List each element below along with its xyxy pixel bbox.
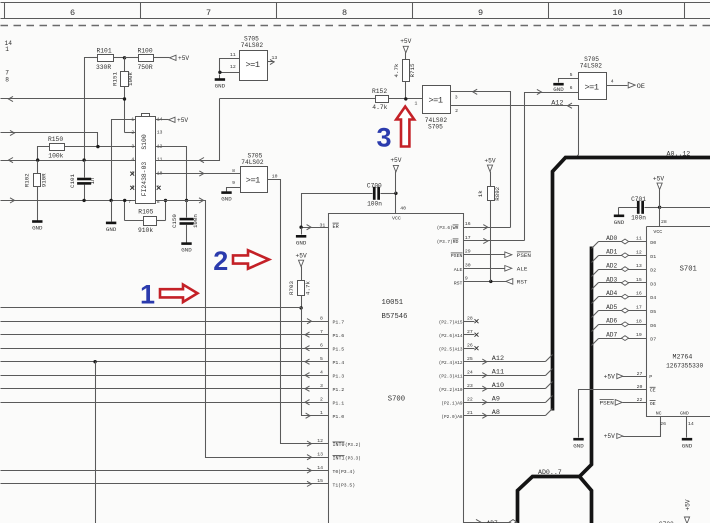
svg-text:16: 16 <box>465 221 471 227</box>
svg-text:D5: D5 <box>650 309 656 315</box>
svg-text:13: 13 <box>157 130 163 136</box>
svg-text:R715: R715 <box>409 63 416 77</box>
wire M2764 GND pin14 <box>687 417 694 438</box>
svg-text:+5V: +5V <box>390 157 401 164</box>
svg-text:3: 3 <box>320 383 323 389</box>
svg-text:7: 7 <box>5 70 9 77</box>
svg-text:R100: R100 <box>138 48 153 55</box>
wire RD pin17 row <box>464 235 525 244</box>
svg-text:4: 4 <box>320 370 323 376</box>
net label A12 at U3 <box>551 100 563 108</box>
svg-text:GND: GND <box>296 239 307 246</box>
wire P1.3 row <box>1 370 329 378</box>
off-page connector PSEN <box>505 252 532 259</box>
svg-text:FI2438-03: FI2438-03 <box>141 162 148 197</box>
wire A15 no-connect stub <box>464 316 479 324</box>
wire U2 output to 8051 INT0 <box>268 180 329 447</box>
svg-text:8: 8 <box>5 77 9 84</box>
svg-text:P1.2: P1.2 <box>333 387 345 393</box>
junction R703 / row307 <box>299 306 302 309</box>
svg-text:(P2.3)A11: (P2.3)A11 <box>439 374 463 379</box>
wire AD0 from bus to M2764 <box>592 236 647 249</box>
svg-text:PSEN: PSEN <box>600 400 615 407</box>
svg-text:S100: S100 <box>141 134 148 150</box>
svg-text:4.7k: 4.7k <box>304 281 311 295</box>
svg-text:2: 2 <box>131 130 134 136</box>
wire AD7 from bus to M2764 <box>592 332 647 345</box>
svg-text:AD2: AD2 <box>606 263 617 270</box>
svg-text:R150: R150 <box>48 136 63 143</box>
svg-text:CE: CE <box>650 387 656 393</box>
wire M2764 VPP rail to page edge <box>660 207 710 209</box>
svg-text:100k: 100k <box>48 152 63 159</box>
off-page connector OE <box>628 82 645 91</box>
resistor R150 <box>38 136 136 160</box>
wire M2764 CE pin20 to ground <box>579 384 647 437</box>
svg-text:C150: C150 <box>171 214 178 228</box>
NOR gate U1 74LS02 S705 <box>230 36 277 81</box>
svg-text:100k: 100k <box>127 72 134 86</box>
svg-text:R102: R102 <box>24 173 31 187</box>
wire M2764 NC pin26 to +5V <box>623 417 667 437</box>
svg-text:750R: 750R <box>138 64 153 71</box>
svg-text:100n: 100n <box>631 215 646 222</box>
svg-text:P1.1: P1.1 <box>333 400 345 406</box>
svg-text:P1.4: P1.4 <box>333 360 345 366</box>
svg-text:910R: 910R <box>40 173 47 187</box>
junction C700/+5V/pin40 <box>394 192 397 195</box>
junction U1 input tie <box>218 71 221 74</box>
svg-text:A10: A10 <box>492 382 504 390</box>
svg-text:25: 25 <box>467 356 473 362</box>
+5V supply at S100 pin14 <box>169 117 189 124</box>
svg-text:7: 7 <box>320 329 323 335</box>
svg-text:PSEN: PSEN <box>451 253 463 259</box>
wire P1.5 row <box>1 343 329 351</box>
svg-text:26: 26 <box>467 343 473 349</box>
svg-text:330R: 330R <box>96 64 111 71</box>
svg-text:+5V: +5V <box>604 373 615 380</box>
svg-text:M2764: M2764 <box>673 354 693 361</box>
svg-text:+5V: +5V <box>400 38 411 45</box>
svg-text:C701: C701 <box>631 196 646 203</box>
svg-text:A11: A11 <box>492 369 504 377</box>
svg-text:11: 11 <box>230 52 236 58</box>
wire AD2 from bus to M2764 <box>592 263 647 276</box>
svg-text:D4: D4 <box>650 295 656 301</box>
svg-text:C700: C700 <box>367 182 382 189</box>
svg-text:AD6: AD6 <box>606 318 617 325</box>
svg-text:R101: R101 <box>97 48 112 55</box>
wire address A10 to bus <box>464 382 553 392</box>
wire U3 pin3 to 8051 WR <box>451 89 511 227</box>
svg-text:AD5: AD5 <box>606 304 617 311</box>
svg-text:15: 15 <box>636 277 642 283</box>
svg-text:A9: A9 <box>492 396 500 404</box>
wire net row y307 from left edge <box>1 307 302 309</box>
resistor R715 <box>393 60 416 99</box>
+5V supply at R100 <box>170 55 190 62</box>
svg-text:17: 17 <box>465 235 471 241</box>
svg-text:19: 19 <box>636 332 642 338</box>
svg-text:9: 9 <box>465 276 468 282</box>
svg-text:30: 30 <box>465 262 471 268</box>
wire R703 to P1.0 pin <box>302 308 329 419</box>
IC S100 FI2438-03 <box>128 114 162 205</box>
sheet border column labels <box>1 3 710 26</box>
wire EA pin31 <box>302 223 329 230</box>
svg-text:28: 28 <box>467 316 473 322</box>
wire +5V to M2764 PGM pin27 <box>623 371 647 377</box>
ground at CE pin20 <box>573 438 584 449</box>
wire A14 no-connect stub <box>464 329 479 337</box>
svg-text:+5V: +5V <box>178 55 189 62</box>
no-connect S100 pin 5 <box>130 172 134 176</box>
svg-text:13: 13 <box>317 452 323 458</box>
svg-text:9: 9 <box>232 180 235 186</box>
+5V supply at pin27 <box>604 373 623 380</box>
wire address A8 to bus <box>464 409 553 419</box>
svg-text:18: 18 <box>636 318 642 324</box>
svg-text:8: 8 <box>157 199 160 205</box>
svg-text:WR: WR <box>453 225 459 231</box>
svg-text:A8: A8 <box>492 409 500 417</box>
svg-text:OE: OE <box>637 83 645 91</box>
svg-text:GND: GND <box>680 410 689 416</box>
svg-text:(P2.1)A9: (P2.1)A9 <box>441 401 462 406</box>
resistor R105 <box>125 201 166 235</box>
svg-text:(P3.7): (P3.7) <box>437 240 453 245</box>
svg-text:1: 1 <box>140 280 155 310</box>
svg-text:11: 11 <box>636 236 642 242</box>
svg-text:NC: NC <box>656 410 662 416</box>
off-page connector RST <box>506 279 528 286</box>
resistor R101 <box>89 48 125 71</box>
junction R101/R100/R151 <box>123 56 126 59</box>
svg-text:4: 4 <box>131 157 134 163</box>
wire S100 pin1 to pin2 net <box>112 120 136 201</box>
off-page connector PSEN at pin22 <box>600 399 623 406</box>
ground at U2 input 9 <box>221 189 232 203</box>
annotation arrow 1 <box>140 280 198 310</box>
svg-text:13: 13 <box>272 55 278 61</box>
resistor R703 <box>288 281 311 308</box>
svg-text:AD1: AD1 <box>606 249 617 256</box>
+5V supply above M2764 <box>653 175 664 207</box>
ground at EA <box>296 228 307 247</box>
svg-text:GND: GND <box>215 83 226 90</box>
svg-text:S705: S705 <box>428 124 443 131</box>
svg-text:(P2.5)A13: (P2.5)A13 <box>439 347 463 352</box>
capacitor C700 <box>343 182 396 207</box>
wire 8051 pin40 VCC <box>396 194 407 214</box>
junction S100 pin1-net / row199 <box>109 199 112 202</box>
wire AD4 from bus to M2764 <box>592 291 647 304</box>
svg-text:+5V: +5V <box>484 158 495 165</box>
node label 14/1 at left margin <box>5 40 13 53</box>
net label AD4 <box>606 290 617 297</box>
bus label A0..12 <box>667 151 691 158</box>
wire address A9 to bus <box>464 396 553 405</box>
junction C150 top <box>185 199 188 202</box>
svg-text:P1.0: P1.0 <box>333 414 345 420</box>
ground at C701 <box>614 208 625 226</box>
svg-text:3: 3 <box>131 143 134 149</box>
net label AD1 <box>606 249 617 256</box>
svg-text:ALE: ALE <box>517 266 528 273</box>
svg-text:11: 11 <box>157 157 163 163</box>
+5V supply at pin26 <box>604 433 623 440</box>
ground at M2764 pin14 <box>682 438 693 449</box>
+5V supply above R703 <box>296 253 307 281</box>
svg-text:P1.3: P1.3 <box>333 373 345 379</box>
svg-text:40: 40 <box>400 206 406 212</box>
svg-text:1k: 1k <box>477 190 484 197</box>
svg-text:23: 23 <box>467 383 473 389</box>
wire S100 pin14 stub <box>156 119 169 121</box>
ground below C150 <box>181 240 192 254</box>
capacitor C150 <box>171 201 199 240</box>
wire U1 output 13 stub <box>268 59 275 64</box>
svg-text:2: 2 <box>455 108 458 114</box>
svg-text:4.7k: 4.7k <box>393 63 400 77</box>
svg-text:17: 17 <box>636 305 642 311</box>
wire net row y199.9 from left edge to S100 pin 7 <box>1 198 136 203</box>
svg-text:C101: C101 <box>69 174 76 188</box>
svg-text:RD: RD <box>453 239 459 245</box>
ground below R102 <box>32 217 43 232</box>
svg-text:S701: S701 <box>680 265 697 273</box>
svg-text:(P2.7)A15: (P2.7)A15 <box>439 320 463 325</box>
wire ALE row <box>464 262 505 268</box>
wire U2 input 9 to ground <box>227 188 241 189</box>
svg-text:4: 4 <box>611 79 614 85</box>
net label AD3 <box>606 276 617 283</box>
junction EA/GND <box>299 226 302 229</box>
junction R150 left / row159 <box>36 158 39 161</box>
svg-text:INT0: INT0 <box>333 442 345 448</box>
wire U4 input5 to ground <box>559 79 579 81</box>
svg-text:27: 27 <box>637 371 643 377</box>
svg-text:T1(P3.5): T1(P3.5) <box>333 483 356 489</box>
junction C701/+5V <box>658 206 661 209</box>
svg-text:GND: GND <box>181 247 192 254</box>
svg-text:2: 2 <box>320 397 323 403</box>
net label A11 <box>492 369 504 377</box>
svg-text:8: 8 <box>342 8 347 18</box>
capacitor C701 <box>619 196 660 222</box>
wire P1.4 drop to page bottom <box>95 362 97 523</box>
bus AD0..7 <box>518 247 592 523</box>
junction RST/R892 <box>489 280 492 283</box>
wire U4 output4 to OE <box>607 85 628 87</box>
svg-text:VCC: VCC <box>392 215 401 221</box>
wire U1 inputs 11/12 tie <box>220 59 240 73</box>
net label A10 <box>492 382 504 390</box>
svg-text:3: 3 <box>455 94 458 100</box>
svg-text:1: 1 <box>5 46 9 53</box>
svg-text:P1.6: P1.6 <box>333 333 345 339</box>
svg-text:GND: GND <box>106 226 117 233</box>
svg-text:P: P <box>649 374 652 380</box>
svg-text:13: 13 <box>636 263 642 269</box>
resistor R152 <box>220 88 423 111</box>
svg-text:(P3.2): (P3.2) <box>345 443 361 448</box>
svg-text:26: 26 <box>660 421 666 427</box>
net label A9 <box>492 396 500 404</box>
svg-text:+5V: +5V <box>604 433 615 440</box>
svg-text:9: 9 <box>478 8 483 18</box>
net label AD6 <box>606 318 617 325</box>
svg-text:(P2.2)A10: (P2.2)A10 <box>439 388 463 393</box>
junction P1.4 tap <box>93 360 96 363</box>
svg-text:7: 7 <box>128 199 131 205</box>
svg-text:R151: R151 <box>112 72 119 86</box>
svg-text:+5V: +5V <box>296 253 307 260</box>
net label AD7 at pin32 <box>487 520 498 523</box>
net label A12 <box>492 355 504 363</box>
svg-text:(P3.3): (P3.3) <box>345 457 361 462</box>
svg-text:22: 22 <box>467 397 473 403</box>
resistor R151 <box>112 58 134 133</box>
svg-text:R703: R703 <box>288 281 295 295</box>
svg-text:>=1: >=1 <box>429 96 443 106</box>
svg-text:1: 1 <box>320 410 323 416</box>
wire P1.4 row <box>1 356 329 364</box>
svg-text:A12: A12 <box>492 355 504 363</box>
resistor R892 <box>477 186 501 281</box>
net label A8 <box>492 409 500 417</box>
svg-text:5: 5 <box>570 72 573 78</box>
svg-text:P1.7: P1.7 <box>333 319 345 325</box>
svg-text:ER: ER <box>333 224 339 230</box>
wire M2764 VCC pin28 <box>660 208 667 227</box>
svg-text:5: 5 <box>320 356 323 362</box>
svg-text:7: 7 <box>206 8 211 18</box>
wire net row y98.5 from left edge to R151 junction <box>1 96 126 101</box>
resistor R102 <box>24 161 48 217</box>
wire S100 pin10 to NOR gate U2 input <box>156 171 241 176</box>
svg-text:D1: D1 <box>650 254 656 260</box>
+5V supply above R892 <box>484 158 495 187</box>
svg-text:ALE: ALE <box>454 267 463 273</box>
annotation arrow 3 <box>377 107 415 153</box>
svg-text:4.7k: 4.7k <box>372 104 387 111</box>
wire AD3 from bus to M2764 <box>592 277 647 290</box>
junction R105 left leg <box>123 199 126 202</box>
svg-text:24: 24 <box>467 370 473 376</box>
svg-text:21: 21 <box>467 410 473 416</box>
junction C101 bottom <box>82 199 85 202</box>
svg-text:74LS02: 74LS02 <box>241 159 264 166</box>
svg-text:PSEN: PSEN <box>517 252 532 259</box>
svg-text:910k: 910k <box>138 227 153 234</box>
svg-text:R152: R152 <box>372 88 387 95</box>
NOR gate U3 74LS02 S705 <box>415 86 459 131</box>
svg-text:GND: GND <box>614 219 625 226</box>
IC U6 EPROM M2764 S701 <box>647 227 710 417</box>
svg-text:20: 20 <box>637 384 643 390</box>
svg-text:(P2.6)A14: (P2.6)A14 <box>439 334 463 339</box>
svg-text:GND: GND <box>221 196 232 203</box>
svg-text:>=1: >=1 <box>585 83 599 93</box>
svg-text:OE: OE <box>650 401 656 407</box>
wire PSEN to M2764 OE pin22 <box>623 397 647 403</box>
svg-text:R892: R892 <box>494 186 501 200</box>
svg-text:AD0..7: AD0..7 <box>538 469 562 476</box>
net label AD7 <box>606 332 617 339</box>
capacitor C702 label <box>659 521 674 523</box>
wire AD7 pin32 row <box>464 519 511 523</box>
svg-text:A0..12: A0..12 <box>667 151 691 158</box>
wire S100 pin12 to C150 net <box>156 147 187 201</box>
svg-text:1n: 1n <box>89 178 96 185</box>
no-connect S100 pin 9 <box>157 186 161 190</box>
resistor R100 <box>125 48 170 71</box>
wire S100 pin2 stub <box>125 132 136 134</box>
svg-text:6: 6 <box>320 343 323 349</box>
svg-text:A12: A12 <box>551 100 563 108</box>
pin number P1.0 <box>320 410 323 416</box>
+5V supply at bottom right <box>684 499 691 523</box>
svg-text:(P2.4)A12: (P2.4)A12 <box>439 361 463 366</box>
svg-text:15: 15 <box>317 478 323 484</box>
svg-text:+5V: +5V <box>685 499 692 510</box>
svg-text:D7: D7 <box>650 337 656 343</box>
junction R105 right leg <box>164 199 167 202</box>
svg-text:(P3.6): (P3.6) <box>437 226 453 231</box>
wire T1 row <box>1 478 329 486</box>
NOR gate U4 74LS02 S705 <box>570 56 614 100</box>
wire P1.6 row <box>1 329 329 337</box>
svg-text:>=1: >=1 <box>246 60 260 70</box>
svg-text:12: 12 <box>636 249 642 255</box>
svg-text:D0: D0 <box>650 240 656 246</box>
svg-text:6: 6 <box>570 85 573 91</box>
svg-text:+5V: +5V <box>653 175 664 182</box>
svg-text:(P2.0)A8: (P2.0)A8 <box>441 415 462 420</box>
wire P1.7 row <box>1 316 329 324</box>
svg-text:GND: GND <box>682 442 693 449</box>
svg-text:31: 31 <box>320 223 326 229</box>
bus label AD0..7 <box>538 469 562 476</box>
NOR gate U2 74LS02 S705 <box>232 153 278 193</box>
wire U3 pin2 A12 net <box>451 103 579 158</box>
wire P1.2 row <box>1 383 329 391</box>
svg-text:16: 16 <box>636 291 642 297</box>
svg-text:12: 12 <box>230 64 236 70</box>
ground at U4 input5 <box>553 81 564 94</box>
svg-text:AD3: AD3 <box>606 276 617 283</box>
svg-text:74LS02: 74LS02 <box>580 62 603 69</box>
capacitor C101 <box>69 161 96 201</box>
ground at U1 inputs <box>215 75 226 90</box>
svg-text:1: 1 <box>131 116 134 122</box>
+5V supply above 8051 pin40 <box>390 157 401 193</box>
svg-text:INT1: INT1 <box>333 456 345 462</box>
svg-text:14: 14 <box>688 421 694 427</box>
wire address A11 to bus <box>464 369 553 378</box>
wire R101 left leg down to row159 <box>85 58 89 161</box>
svg-text:AD0: AD0 <box>606 235 617 242</box>
svg-text:10051: 10051 <box>382 299 404 307</box>
junction R150 right / row132 drop <box>96 145 99 148</box>
net label AD2 <box>606 263 617 270</box>
svg-text:8: 8 <box>320 316 323 322</box>
svg-text:1: 1 <box>415 101 418 107</box>
svg-text:AD4: AD4 <box>606 290 617 297</box>
wire WR pin16 row <box>464 221 511 230</box>
